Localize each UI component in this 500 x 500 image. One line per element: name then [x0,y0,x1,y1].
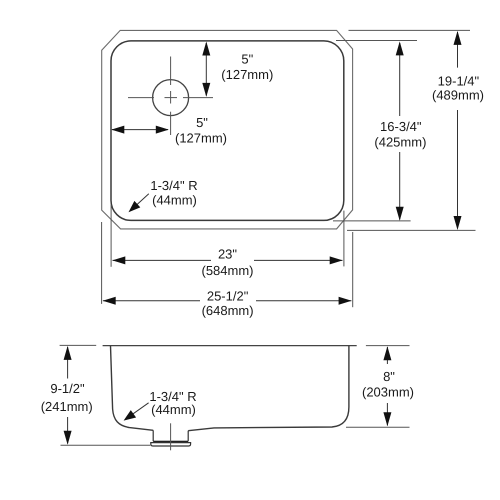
dimension 5" horizontal (hole center from left) [111,115,227,145]
svg-text:(44mm): (44mm) [151,402,196,417]
svg-text:23": 23" [218,247,237,262]
extension line side bottom right [346,426,410,428]
svg-text:(203mm): (203mm) [362,385,414,400]
dimension 8" [362,346,414,426]
dimension 25-1/2" [103,289,352,319]
dimension 23" [112,247,342,279]
svg-text:(425mm): (425mm) [374,134,426,149]
extension line side top right [366,345,410,347]
extension line side bottom left [61,444,151,446]
extension line inner bottom right [333,220,411,222]
extension line outer right vertical [352,232,354,307]
svg-text:(44mm): (44mm) [152,192,197,207]
extension line outer bottom right [347,229,476,231]
dimension 16-3/4" [374,41,426,220]
side view bowl right/bottom profile [188,346,349,431]
extension line inner left vertical [110,205,112,267]
bowl radius callout (side view) [124,389,197,421]
svg-text:16-3/4": 16-3/4" [380,119,422,134]
svg-text:(584mm): (584mm) [201,263,253,278]
svg-text:9-1/2": 9-1/2" [50,381,85,396]
svg-text:19-1/4": 19-1/4" [438,74,480,89]
extension line outer left vertical [101,222,103,304]
dimension 5" vertical (hole center from top) [202,42,273,97]
sink bowl inner edge (top view) [111,41,344,221]
side view bowl left/bottom profile [111,346,154,431]
faucet hole centerline vertical [170,57,172,136]
side view rim line [103,345,357,347]
faucet hole [153,80,189,116]
svg-text:5": 5" [196,115,208,130]
extension line inner right vertical [343,211,345,267]
corner radius callout (top view) [129,178,198,212]
sink outer rim (top view) [102,30,353,229]
svg-text:(489mm): (489mm) [432,88,484,103]
dimension 19-1/4" [432,31,484,230]
extension line inner top right [336,40,417,42]
svg-text:(127mm): (127mm) [221,67,273,82]
faucet hole centerline horizontal [128,97,213,99]
svg-text:(648mm): (648mm) [202,303,254,318]
svg-text:(241mm): (241mm) [41,399,93,414]
extension line side top left [60,344,97,346]
svg-text:(127mm): (127mm) [175,130,227,145]
extension line outer top right [349,29,471,31]
drain centerline [170,423,172,450]
svg-text:25-1/2": 25-1/2" [207,289,249,304]
dimension 9-1/2" [41,346,93,445]
svg-text:1-3/4" R: 1-3/4" R [150,178,197,193]
drain body [151,430,191,446]
svg-text:8": 8" [383,369,395,384]
svg-text:5": 5" [241,51,253,66]
